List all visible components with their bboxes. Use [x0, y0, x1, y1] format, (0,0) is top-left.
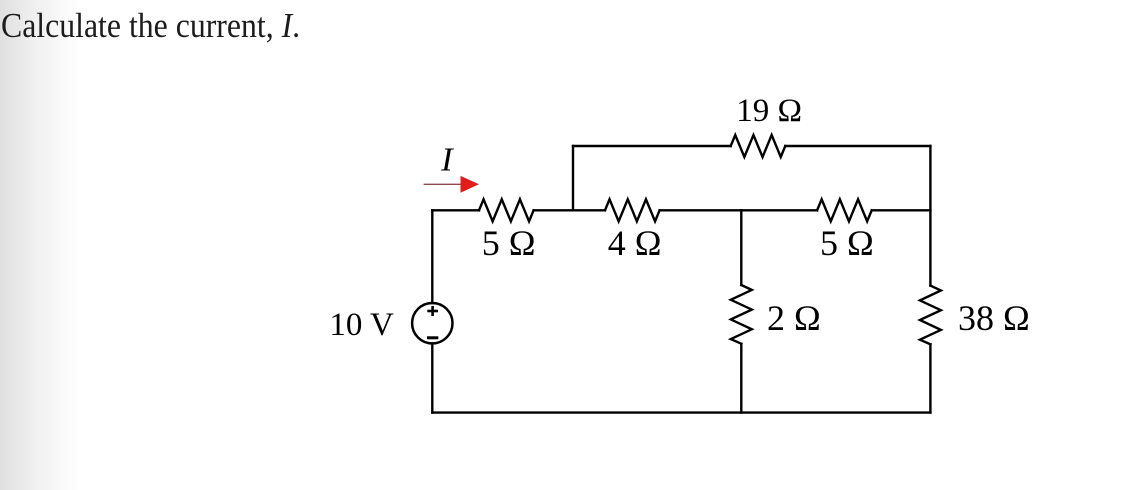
wire right vertical lower	[929, 344, 931, 412]
resistor R1 5 ohm (horizontal zigzag)	[479, 199, 534, 221]
wire middle segment R1-to-R2 with node at 573	[534, 209, 605, 211]
minus sign inside source	[427, 336, 438, 339]
wire 2ohm branch lower vertical	[740, 344, 742, 413]
svg-text:38 Ω: 38 Ω	[958, 298, 1030, 338]
resistor R2 4 ohm (horizontal zigzag)	[605, 199, 660, 221]
svg-text:10 V: 10 V	[329, 307, 394, 343]
wire middle segment source-to-R1	[432, 209, 479, 211]
resistor R5 38 ohm (vertical zigzag)	[920, 286, 941, 345]
current arrow I head	[461, 176, 480, 193]
wire left vertical top (source to middle wire)	[431, 210, 433, 303]
left page-edge shading	[0, 0, 80, 490]
svg-text:5 Ω: 5 Ω	[820, 223, 874, 263]
wire bottom	[432, 411, 930, 413]
wire top branch right segment	[785, 145, 930, 147]
wire left vertical bottom (source to bottom wire)	[431, 343, 433, 412]
svg-text:19 Ω: 19 Ω	[736, 93, 802, 129]
voltage source V1 10 V circle	[412, 303, 452, 343]
resistor R6 2 ohm (vertical zigzag)	[731, 285, 752, 344]
svg-text:2 Ω: 2 Ω	[767, 298, 821, 338]
svg-text:I: I	[440, 141, 454, 178]
svg-text:4 Ω: 4 Ω	[608, 223, 662, 263]
resistor R4 19 ohm (horizontal zigzag)	[731, 135, 786, 157]
resistor R3 5 ohm (horizontal zigzag)	[817, 199, 872, 221]
wire top-branch left vertical	[572, 146, 574, 210]
plus sign inside source	[427, 306, 438, 316]
current arrow I tail	[424, 183, 462, 185]
wire middle segment R3-to-right vertical	[872, 209, 931, 211]
title text	[1, 6, 300, 46]
svg-text:5 Ω: 5 Ω	[482, 223, 536, 263]
wire right vertical upper	[929, 146, 931, 286]
wire top branch left segment	[573, 145, 731, 147]
wire 2ohm branch upper vertical	[740, 210, 742, 285]
wire middle segment R2-to-R3	[660, 209, 818, 211]
